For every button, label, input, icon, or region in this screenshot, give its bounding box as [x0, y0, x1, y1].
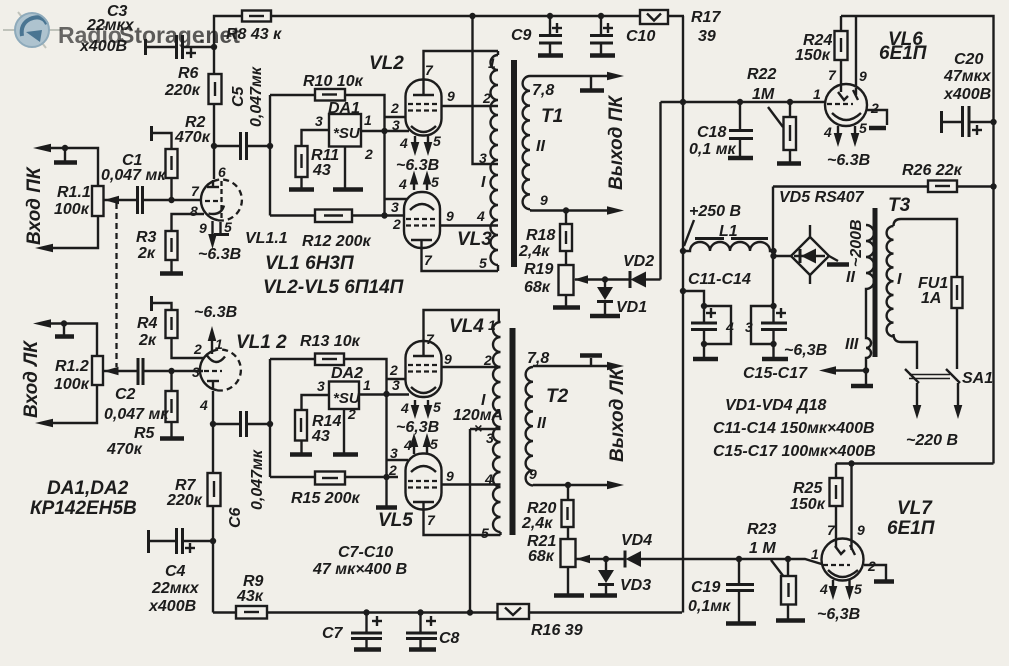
- svg-text:С15-С17: С15-С17: [743, 365, 808, 382]
- svg-text:С18: С18: [697, 124, 726, 141]
- svg-text:1: 1: [488, 317, 496, 333]
- svg-text:х400В: х400В: [148, 598, 196, 615]
- svg-text:4: 4: [199, 397, 208, 413]
- svg-text:Вход ЛК: Вход ЛК: [21, 340, 42, 418]
- svg-text:С8: С8: [439, 630, 460, 647]
- svg-text:4: 4: [399, 135, 408, 151]
- svg-text:С5: С5: [230, 85, 247, 107]
- svg-text:R5: R5: [134, 425, 156, 442]
- svg-text:L1: L1: [719, 223, 738, 240]
- svg-text:3: 3: [745, 319, 753, 335]
- svg-text:~6,3В: ~6,3В: [784, 342, 827, 359]
- svg-text:VL2-VL5 6П14П: VL2-VL5 6П14П: [263, 277, 404, 298]
- svg-text:4: 4: [484, 471, 493, 487]
- svg-text:Т2: Т2: [546, 386, 569, 407]
- svg-text:2: 2: [364, 146, 373, 162]
- svg-text:R25: R25: [793, 480, 823, 497]
- svg-text:II: II: [846, 269, 855, 286]
- svg-text:VD3: VD3: [620, 577, 651, 594]
- svg-text:220к: 220к: [164, 82, 201, 99]
- svg-text:6Е1П: 6Е1П: [879, 43, 927, 64]
- svg-text:2: 2: [193, 341, 202, 357]
- svg-text:1: 1: [813, 86, 821, 102]
- svg-text:Вход ПК: Вход ПК: [24, 166, 45, 245]
- svg-text:7: 7: [191, 183, 200, 199]
- svg-text:0,047мк: 0,047мк: [248, 66, 265, 127]
- svg-text:4: 4: [476, 208, 485, 224]
- svg-text:С20: С20: [954, 51, 983, 68]
- svg-text:х400В: х400В: [79, 38, 127, 55]
- svg-text:R12 200к: R12 200к: [302, 233, 371, 250]
- svg-text:0,1мк: 0,1мк: [688, 598, 731, 615]
- svg-text:R15 200к: R15 200к: [291, 490, 360, 507]
- svg-text:4: 4: [400, 400, 409, 416]
- svg-text:4: 4: [398, 176, 407, 192]
- svg-text:1: 1: [364, 112, 372, 128]
- svg-text:470к: 470к: [174, 129, 211, 146]
- svg-text:R8 43 к: R8 43 к: [226, 26, 282, 43]
- svg-text:7: 7: [828, 67, 837, 83]
- svg-text:7: 7: [424, 252, 433, 268]
- svg-text:I: I: [897, 271, 902, 288]
- svg-text:VL3: VL3: [457, 229, 492, 250]
- svg-text:VD1-VD4 Д18: VD1-VD4 Д18: [725, 397, 826, 414]
- svg-text:С7-С10: С7-С10: [338, 544, 393, 561]
- svg-text:3: 3: [392, 117, 400, 133]
- svg-text:2к: 2к: [138, 332, 157, 349]
- svg-text:Т1: Т1: [541, 106, 563, 127]
- svg-text:+250 В: +250 В: [689, 203, 741, 220]
- svg-text:5: 5: [481, 525, 489, 541]
- svg-text:R19: R19: [524, 261, 553, 278]
- svg-text:1А: 1А: [921, 290, 941, 307]
- svg-text:VL1 6Н3П: VL1 6Н3П: [265, 253, 354, 274]
- svg-text:DA2: DA2: [331, 365, 363, 382]
- svg-text:1: 1: [488, 55, 496, 71]
- svg-text:3: 3: [192, 364, 200, 380]
- svg-text:R4: R4: [137, 315, 158, 332]
- svg-text:3: 3: [315, 113, 323, 129]
- svg-text:7: 7: [827, 522, 836, 538]
- svg-text:~6,3В: ~6,3В: [396, 419, 439, 436]
- svg-text:х400В: х400В: [943, 86, 991, 103]
- svg-text:7,8: 7,8: [532, 82, 554, 99]
- svg-text:VL2: VL2: [369, 53, 404, 74]
- svg-text:R17: R17: [691, 9, 721, 26]
- svg-text:~6.3В: ~6.3В: [198, 246, 241, 263]
- svg-text:220к: 220к: [166, 492, 203, 509]
- svg-text:Выход ПК: Выход ПК: [606, 95, 627, 190]
- svg-text:R13 10к: R13 10к: [300, 333, 361, 350]
- svg-text:С7: С7: [322, 625, 344, 642]
- svg-text:VL1.1: VL1.1: [245, 230, 288, 247]
- svg-text:R3: R3: [136, 229, 157, 246]
- svg-text:~200В: ~200В: [848, 219, 865, 267]
- svg-text:7: 7: [427, 512, 436, 528]
- svg-text:1: 1: [215, 336, 223, 352]
- svg-text:R23: R23: [747, 521, 776, 538]
- svg-text:II: II: [537, 415, 546, 432]
- svg-text:9: 9: [444, 351, 452, 367]
- svg-text:1 М: 1 М: [749, 540, 776, 557]
- svg-text:7: 7: [425, 62, 434, 78]
- svg-text:4: 4: [823, 124, 832, 140]
- svg-text:DA1,DA2: DA1,DA2: [47, 478, 129, 499]
- svg-text:R1.1: R1.1: [57, 184, 91, 201]
- svg-text:×: ×: [474, 420, 482, 436]
- svg-text:8: 8: [190, 203, 198, 219]
- svg-text:6: 6: [218, 164, 226, 180]
- svg-text:С10: С10: [626, 28, 655, 45]
- svg-text:2: 2: [347, 406, 356, 422]
- svg-text:VD2: VD2: [623, 253, 654, 270]
- svg-text:2: 2: [392, 216, 401, 232]
- svg-text:0,047мк: 0,047мк: [249, 449, 266, 510]
- svg-text:2: 2: [389, 362, 398, 378]
- svg-text:VL7: VL7: [897, 498, 933, 519]
- svg-text:9: 9: [540, 192, 548, 208]
- svg-text:0,1 мк: 0,1 мк: [689, 141, 737, 158]
- svg-text:7: 7: [426, 331, 435, 347]
- svg-text:*SU: *SU: [333, 125, 361, 142]
- svg-text:DA1: DA1: [328, 100, 360, 117]
- svg-text:*SU: *SU: [333, 390, 361, 407]
- svg-text:~6.3В: ~6.3В: [194, 304, 237, 321]
- svg-text:С9: С9: [511, 27, 532, 44]
- svg-text:68к: 68к: [524, 279, 551, 296]
- svg-text:47мкх: 47мкх: [943, 68, 992, 85]
- svg-text:100к: 100к: [54, 201, 90, 218]
- svg-text:R6: R6: [178, 65, 199, 82]
- svg-text:43: 43: [311, 428, 330, 445]
- svg-text:5: 5: [479, 255, 487, 271]
- svg-text:VD4: VD4: [621, 532, 652, 549]
- svg-text:5: 5: [431, 174, 439, 190]
- svg-text:~220 В: ~220 В: [906, 432, 958, 449]
- svg-text:1: 1: [811, 546, 819, 562]
- svg-text:4: 4: [819, 581, 828, 597]
- svg-text:2: 2: [390, 100, 399, 116]
- svg-text:~6,3В: ~6,3В: [817, 606, 860, 623]
- svg-text:2: 2: [483, 352, 492, 368]
- svg-text:47 мк×400 В: 47 мк×400 В: [312, 561, 407, 578]
- svg-text:R10 10к: R10 10к: [303, 73, 364, 90]
- svg-text:9: 9: [857, 522, 865, 538]
- svg-text:9: 9: [447, 88, 455, 104]
- svg-text:SA1: SA1: [962, 370, 993, 387]
- svg-text:39: 39: [698, 28, 716, 45]
- svg-text:0,047 мк: 0,047 мк: [101, 167, 166, 184]
- svg-text:5: 5: [433, 133, 441, 149]
- svg-text:I: I: [481, 174, 486, 191]
- svg-text:R1.2: R1.2: [55, 358, 89, 375]
- svg-text:5: 5: [224, 219, 232, 235]
- svg-text:2: 2: [867, 558, 876, 574]
- svg-text:68к: 68к: [528, 548, 555, 565]
- svg-text:С11-С14: С11-С14: [688, 271, 751, 288]
- svg-text:9: 9: [446, 208, 454, 224]
- svg-text:9: 9: [859, 68, 867, 84]
- svg-text:VL5: VL5: [378, 510, 413, 531]
- svg-text:1М: 1М: [752, 86, 775, 103]
- svg-text:С4: С4: [165, 563, 186, 580]
- svg-text:150к: 150к: [790, 496, 826, 513]
- svg-text:~6.3В: ~6.3В: [396, 157, 439, 174]
- svg-text:R18: R18: [526, 227, 555, 244]
- svg-text:С11-С14 150мк×400В: С11-С14 150мк×400В: [713, 420, 875, 437]
- svg-text:100к: 100к: [54, 376, 90, 393]
- svg-text:9: 9: [529, 466, 537, 482]
- svg-text:150к: 150к: [795, 47, 831, 64]
- svg-text:Выход ЛК: Выход ЛК: [607, 367, 628, 462]
- svg-text:~6.3В: ~6.3В: [827, 152, 870, 169]
- svg-text:22мкх: 22мкх: [86, 17, 135, 34]
- svg-text:R26 22к: R26 22к: [902, 162, 963, 179]
- svg-text:2: 2: [870, 100, 879, 116]
- svg-text:2: 2: [482, 90, 491, 106]
- svg-text:С6: С6: [227, 507, 244, 528]
- svg-text:43: 43: [312, 162, 331, 179]
- svg-text:9: 9: [199, 220, 207, 236]
- svg-text:43к: 43к: [236, 588, 264, 605]
- svg-text:22мкх: 22мкх: [151, 580, 200, 597]
- svg-text:2,4к: 2,4к: [521, 515, 553, 532]
- svg-text:VL1 2: VL1 2: [236, 332, 287, 353]
- svg-text:Т3: Т3: [888, 195, 911, 216]
- svg-text:470к: 470к: [106, 441, 143, 458]
- svg-text:7,8: 7,8: [527, 350, 549, 367]
- svg-text:4: 4: [725, 319, 734, 335]
- svg-text:VD5 RS407: VD5 RS407: [779, 189, 865, 206]
- svg-text:5: 5: [859, 120, 867, 136]
- svg-text:2,4к: 2,4к: [518, 243, 550, 260]
- svg-text:3: 3: [390, 445, 398, 461]
- svg-text:VL4: VL4: [449, 316, 484, 337]
- svg-text:4: 4: [403, 437, 412, 453]
- svg-text:3: 3: [317, 378, 325, 394]
- svg-text:3: 3: [479, 150, 487, 166]
- svg-text:С2: С2: [115, 386, 136, 403]
- svg-text:R16 39: R16 39: [531, 622, 583, 639]
- svg-text:6Е1П: 6Е1П: [887, 518, 935, 539]
- svg-text:3: 3: [391, 199, 399, 215]
- svg-text:С15-С17 100мк×400В: С15-С17 100мк×400В: [713, 443, 876, 460]
- svg-text:2: 2: [388, 462, 397, 478]
- svg-text:3: 3: [392, 377, 400, 393]
- svg-text:5: 5: [854, 581, 862, 597]
- svg-text:2к: 2к: [137, 245, 156, 262]
- svg-text:5: 5: [430, 436, 438, 452]
- svg-text:9: 9: [446, 468, 454, 484]
- svg-text:VD1: VD1: [616, 299, 647, 316]
- svg-text:0,047 мк: 0,047 мк: [104, 406, 169, 423]
- svg-text:КР142ЕН5В: КР142ЕН5В: [30, 498, 137, 519]
- svg-text:III: III: [845, 336, 859, 353]
- svg-text:1: 1: [363, 377, 371, 393]
- svg-text:3: 3: [486, 430, 494, 446]
- svg-text:С19: С19: [691, 579, 720, 596]
- svg-text:5: 5: [433, 399, 441, 415]
- svg-text:II: II: [536, 138, 545, 155]
- svg-text:R22: R22: [747, 66, 776, 83]
